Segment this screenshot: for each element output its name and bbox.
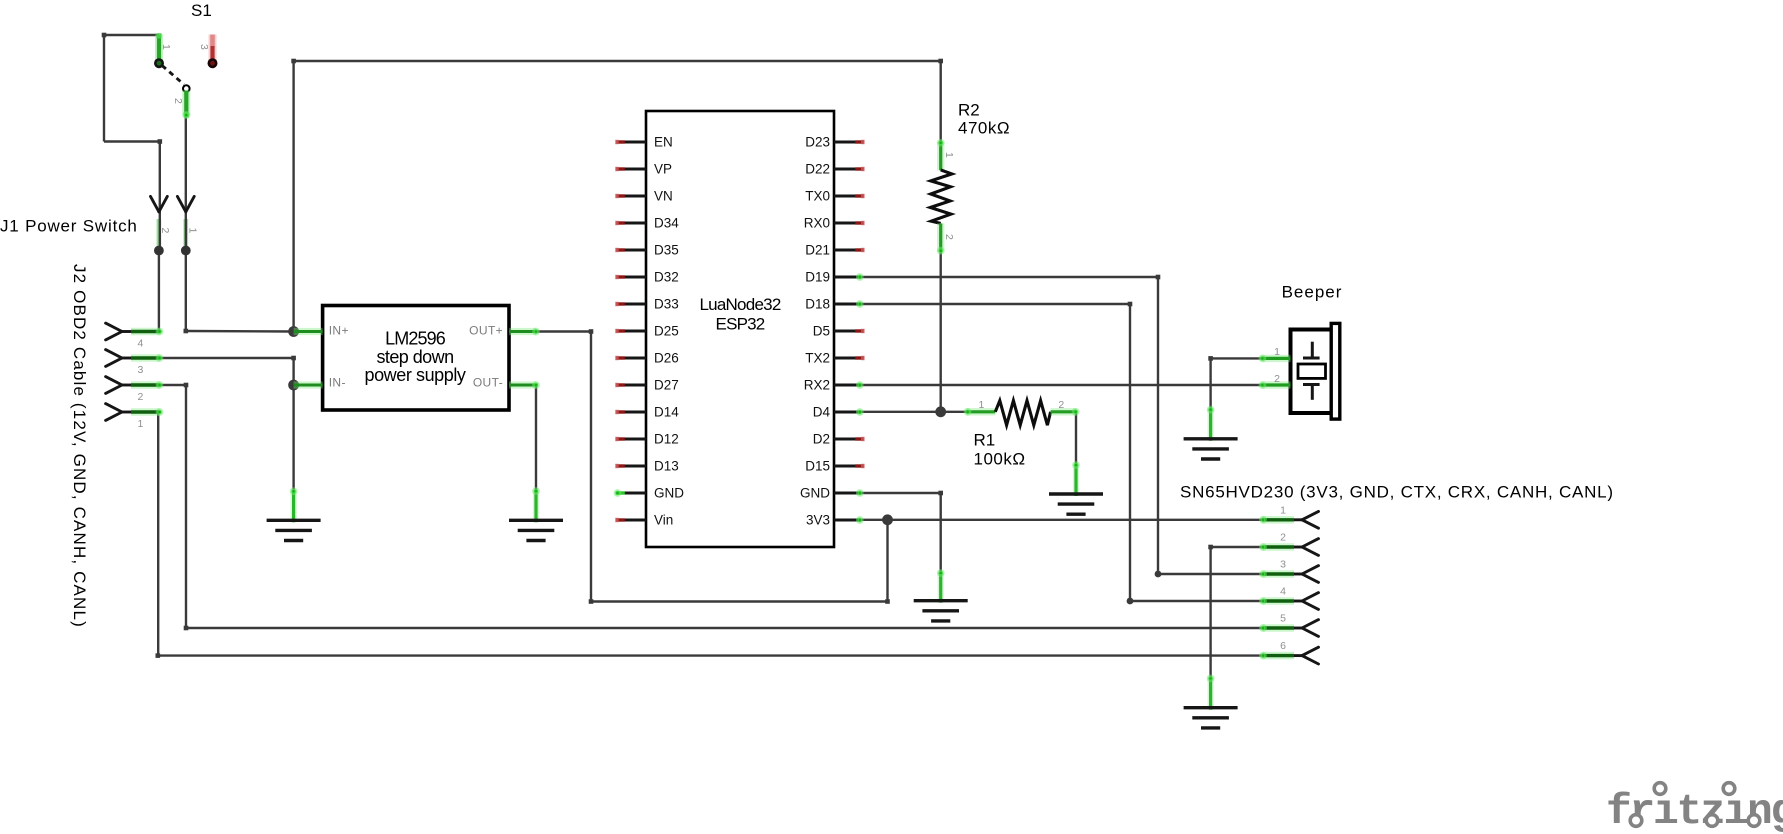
svg-text:2: 2 bbox=[138, 391, 144, 403]
svg-text:LuaNode32: LuaNode32 bbox=[699, 295, 780, 314]
svg-text:3: 3 bbox=[1280, 559, 1286, 571]
svg-text:OUT+: OUT+ bbox=[469, 324, 503, 338]
svg-text:GND: GND bbox=[654, 486, 684, 501]
svg-text:VN: VN bbox=[654, 189, 673, 204]
svg-text:1: 1 bbox=[978, 399, 984, 411]
svg-text:D33: D33 bbox=[654, 297, 679, 312]
svg-text:ESP32: ESP32 bbox=[716, 315, 765, 334]
svg-text:100kΩ: 100kΩ bbox=[974, 450, 1026, 469]
svg-text:1: 1 bbox=[138, 418, 144, 430]
svg-text:D26: D26 bbox=[654, 351, 679, 366]
svg-text:D14: D14 bbox=[654, 405, 679, 420]
svg-text:power supply: power supply bbox=[364, 365, 465, 385]
svg-text:J1 Power Switch: J1 Power Switch bbox=[0, 216, 138, 235]
svg-text:D27: D27 bbox=[654, 378, 679, 393]
svg-text:D15: D15 bbox=[805, 459, 830, 474]
svg-text:1: 1 bbox=[1280, 504, 1286, 516]
svg-text:step down: step down bbox=[376, 347, 453, 367]
svg-text:D5: D5 bbox=[813, 324, 830, 339]
svg-text:3: 3 bbox=[138, 364, 144, 376]
svg-text:D21: D21 bbox=[805, 243, 830, 258]
svg-text:D22: D22 bbox=[805, 162, 830, 177]
svg-text:1: 1 bbox=[1274, 346, 1280, 358]
svg-text:R2: R2 bbox=[958, 101, 980, 120]
svg-text:RX2: RX2 bbox=[804, 378, 830, 393]
svg-text:D32: D32 bbox=[654, 270, 679, 285]
svg-text:D4: D4 bbox=[813, 405, 831, 420]
svg-text:Vin: Vin bbox=[654, 513, 673, 528]
svg-text:Beeper: Beeper bbox=[1282, 283, 1343, 302]
svg-text:2: 2 bbox=[943, 234, 955, 240]
svg-text:1: 1 bbox=[943, 152, 955, 158]
svg-text:R1: R1 bbox=[974, 431, 996, 450]
svg-text:IN+: IN+ bbox=[329, 324, 349, 338]
svg-text:D25: D25 bbox=[654, 324, 679, 339]
svg-text:IN-: IN- bbox=[329, 376, 346, 390]
svg-text:RX0: RX0 bbox=[804, 216, 830, 231]
svg-text:GND: GND bbox=[800, 486, 830, 501]
svg-text:6: 6 bbox=[1280, 640, 1286, 652]
svg-text:470kΩ: 470kΩ bbox=[958, 119, 1010, 138]
svg-text:2: 2 bbox=[159, 228, 171, 234]
svg-text:5: 5 bbox=[1280, 613, 1286, 625]
svg-text:D23: D23 bbox=[805, 135, 830, 150]
svg-text:LM2596: LM2596 bbox=[385, 328, 446, 348]
svg-text:4: 4 bbox=[1280, 586, 1286, 598]
svg-text:TX0: TX0 bbox=[805, 189, 830, 204]
svg-text:SN65HVD230 (3V3, GND, CTX, CRX: SN65HVD230 (3V3, GND, CTX, CRX, CANH, CA… bbox=[1180, 483, 1614, 502]
svg-text:D34: D34 bbox=[654, 216, 679, 231]
svg-text:2: 2 bbox=[1280, 532, 1286, 544]
svg-text:3: 3 bbox=[198, 44, 210, 50]
svg-text:2: 2 bbox=[1274, 373, 1280, 385]
svg-text:1: 1 bbox=[160, 44, 172, 50]
svg-text:4: 4 bbox=[138, 338, 144, 350]
svg-text:S1: S1 bbox=[191, 1, 212, 20]
svg-text:2: 2 bbox=[172, 98, 184, 104]
svg-text:D18: D18 bbox=[805, 297, 830, 312]
svg-text:VP: VP bbox=[654, 162, 672, 177]
svg-text:D19: D19 bbox=[805, 270, 830, 285]
svg-text:D12: D12 bbox=[654, 432, 679, 447]
svg-text:3V3: 3V3 bbox=[806, 513, 830, 528]
svg-text:OUT-: OUT- bbox=[473, 376, 503, 390]
svg-text:1: 1 bbox=[187, 228, 199, 234]
svg-text:TX2: TX2 bbox=[805, 351, 830, 366]
svg-text:D13: D13 bbox=[654, 459, 679, 474]
svg-text:D35: D35 bbox=[654, 243, 679, 258]
svg-text:2: 2 bbox=[1058, 399, 1064, 411]
svg-text:EN: EN bbox=[654, 135, 673, 150]
svg-text:J2 OBD2 Cable (12V, GND, CANH,: J2 OBD2 Cable (12V, GND, CANH, CANL) bbox=[70, 264, 89, 628]
svg-text:D2: D2 bbox=[813, 432, 830, 447]
